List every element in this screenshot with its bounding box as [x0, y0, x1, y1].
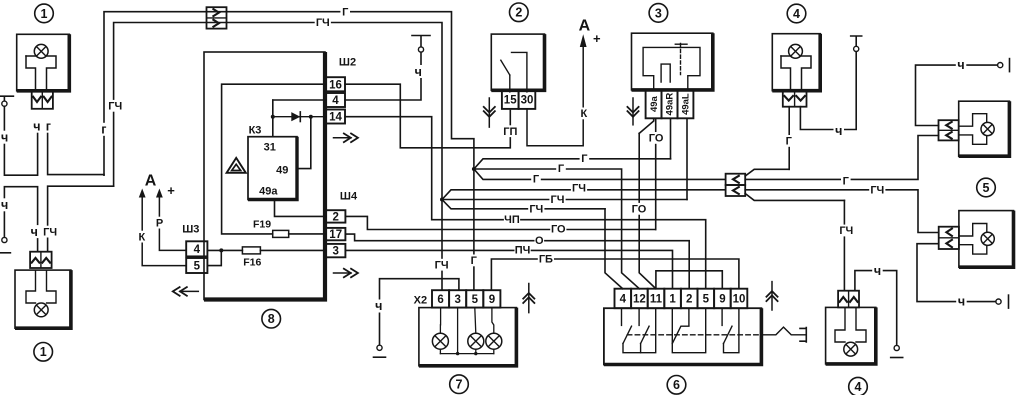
lamp 4 front bulb	[781, 44, 811, 90]
svg-text:30: 30	[521, 95, 534, 107]
body contact top right	[851, 36, 862, 52]
svg-text:Г: Г	[558, 163, 565, 175]
junction dot diode-left	[271, 115, 275, 119]
circled 2	[510, 3, 529, 22]
feed arrow A + (battery)	[580, 34, 587, 47]
hazard switch pin 49aR	[662, 90, 678, 118]
label ГБ	[538, 253, 554, 266]
K3 pin label 49a	[259, 186, 278, 198]
wire ч lamp4-front to body contact	[800, 52, 856, 130]
fuse F16	[242, 247, 260, 254]
svg-text:Г: Г	[581, 153, 588, 165]
svg-text:ч: ч	[1, 130, 8, 144]
label F16	[243, 257, 261, 269]
svg-text:6: 6	[437, 294, 443, 306]
connector X (top-left, in Г/ГЧ runs)	[207, 7, 227, 28]
connector Ш2 pin 4	[326, 93, 345, 107]
cluster connector X2 pin 6	[432, 290, 449, 307]
wire F16 to Ш4-3	[260, 249, 326, 251]
relay K3 (turn signal / hazard flasher)	[248, 137, 297, 200]
svg-text:6: 6	[673, 378, 680, 392]
wire ЧП: Ш2-14 to column switch pin 5	[345, 117, 706, 289]
wire Ш2-4 to relay K3 pin 31	[273, 100, 326, 137]
svg-text:5: 5	[703, 294, 710, 306]
circled 1 (bottom)	[34, 343, 53, 362]
svg-text:ГЧ: ГЧ	[435, 259, 449, 271]
wire ГЧ bus to 49aL	[442, 199, 687, 201]
wire ГЧ to rear side repeater (item 5 bottom)	[745, 190, 939, 233]
svg-text:ч: ч	[1, 198, 8, 212]
svg-text:Ш4: Ш4	[340, 191, 358, 203]
connector of lamp 1 rear	[30, 252, 51, 268]
labels ч ГЧ above lamp 1 rear	[29, 225, 58, 239]
label Г right of connector X	[340, 6, 350, 19]
down continuation arrow near item 3	[627, 98, 639, 125]
connector XS (right, Г line)	[726, 174, 746, 185]
svg-text:11: 11	[650, 294, 663, 306]
wire Ш2-16 to fuse F19	[222, 84, 326, 234]
svg-text:15: 15	[504, 95, 517, 107]
connector of side repeater rear	[939, 227, 959, 249]
svg-text:А: А	[145, 172, 157, 189]
label ГО (lower)	[631, 203, 647, 216]
svg-text:ГЧ: ГЧ	[870, 185, 884, 197]
label X2	[412, 294, 428, 307]
svg-text:Г: Г	[786, 136, 793, 148]
wire ч lamp4-rear to ground	[855, 271, 897, 345]
column switch pin 2	[681, 289, 698, 309]
svg-text:49а: 49а	[649, 95, 660, 112]
diode VD	[291, 112, 300, 122]
lamp 1 front bulb	[26, 44, 56, 90]
circled 5	[977, 178, 996, 197]
svg-text:ГЧ: ГЧ	[572, 183, 586, 195]
jumper Ш3-5 to Ш3-4 node	[207, 250, 221, 265]
wire ГЧ from junction B down to cluster X2-6	[441, 200, 443, 291]
svg-text:9: 9	[719, 294, 725, 306]
connector Ш3 pin 5	[186, 258, 207, 273]
wire F19 to Ш4-17	[289, 233, 326, 235]
feed arrow K (to battery) left	[139, 189, 186, 266]
wire Г bus to connector XS right	[474, 169, 726, 179]
svg-text:ч: ч	[415, 65, 422, 79]
svg-text:г: г	[46, 119, 51, 133]
wire ГЧ to rear-right lamp 4	[745, 194, 844, 291]
wire О: Ш4-17 to column switch pin 2	[345, 234, 689, 289]
wire Г to side repeaters (item 5)	[745, 136, 938, 180]
cluster connector X2 pin 9	[483, 290, 500, 307]
svg-text:4: 4	[793, 7, 800, 21]
hazard switch pin 49aL	[678, 90, 694, 118]
continuation arrow right (at Ш2-14)	[334, 133, 358, 143]
label г on left Г riser	[99, 123, 110, 137]
svg-text:Ш2: Ш2	[339, 57, 356, 69]
svg-text:ГЧ: ГЧ	[529, 204, 543, 216]
label F19	[253, 219, 271, 231]
wire Ш2-14 to diode	[273, 100, 326, 117]
wire Г from junction A down to cluster X2-5	[473, 169, 475, 290]
wire 49aL to ГЧ bus	[686, 118, 688, 199]
wire ч from upper contact to lamp1-front ч pin	[4, 106, 37, 175]
column switch pin 4	[615, 289, 632, 309]
label P	[155, 217, 165, 230]
label О	[535, 234, 545, 247]
wire ПЧ: Ш4-3 to column switch pin 1	[345, 250, 672, 288]
svg-text:ч: ч	[835, 124, 842, 138]
svg-text:14: 14	[329, 112, 342, 124]
column switch housing (item 6)	[604, 308, 762, 364]
svg-text:ч: ч	[874, 264, 881, 278]
label K	[137, 231, 147, 244]
svg-text:Г: Г	[533, 174, 540, 186]
ignition switch housing (item 2)	[491, 34, 544, 90]
up continuation arrow right of item 7	[523, 284, 535, 313]
wire г from lamp1-front to Г riser	[48, 124, 104, 175]
ignition switch contacts	[501, 52, 527, 92]
svg-text:4: 4	[332, 95, 339, 107]
connector Ш4 pin 17	[326, 228, 345, 241]
wire ч from lower contact to lamp1-rear ч pin	[4, 187, 37, 252]
circled 8	[262, 309, 281, 328]
labels ч г under lamp 1 front	[32, 119, 54, 133]
column switch pin 10	[731, 289, 748, 309]
svg-text:ГО: ГО	[649, 133, 664, 145]
ignition switch pin 15	[502, 90, 519, 109]
ground point below (cluster)	[374, 345, 386, 357]
connector Ш2 pin 16	[326, 77, 345, 91]
junction B of ГЧ wires	[440, 198, 444, 202]
ground point bottom right	[891, 345, 903, 357]
lamp 1 rear-left turn signal housing	[15, 270, 71, 328]
circled 7	[450, 375, 469, 394]
circled 4 (bottom)	[849, 377, 868, 395]
wire Г to front-right lamp 4	[745, 107, 789, 176]
svg-text:2: 2	[332, 211, 338, 223]
lamp 4 rear-right turn signal housing	[826, 307, 876, 364]
junction A of Г wires	[472, 167, 476, 171]
wire ГЧ from lamp1-rear to ГЧ riser	[48, 186, 114, 252]
continuation arrow left (below Ш3)	[173, 287, 199, 297]
svg-text:ГЧ: ГЧ	[839, 225, 853, 237]
svg-text:+: +	[593, 31, 601, 46]
label ГЧ on left ГЧ riser	[107, 100, 123, 113]
wire pin30 to battery feed K	[527, 46, 583, 146]
hazard warning triangle symbol	[227, 158, 246, 173]
svg-text:ГП: ГП	[503, 126, 517, 138]
side repeater lamp housing (rear)	[959, 211, 1014, 268]
circled 3	[649, 4, 668, 23]
svg-text:2: 2	[686, 294, 692, 306]
svg-text:49аL: 49аL	[681, 93, 692, 115]
svg-text:ч: ч	[31, 225, 38, 239]
svg-text:Р: Р	[156, 217, 163, 229]
wire ГП: Ш2-16 to ignition switch pin 15	[345, 84, 510, 148]
svg-text:17: 17	[329, 229, 342, 241]
wire ГБ: instrument cluster X2-9 to column switch pin 10	[491, 259, 739, 290]
body contact right top (side)	[998, 59, 1010, 72]
lamp 1 front-left turn signal housing	[17, 34, 70, 91]
ignition switch pin 30	[519, 90, 536, 109]
continuation arrow right (at Ш4-3)	[334, 268, 358, 278]
label ГП	[502, 125, 518, 138]
wire ГО: 49a straight down to ГО bus	[655, 118, 657, 229]
svg-text:ЧП: ЧП	[504, 214, 520, 226]
column switch pin 9	[714, 289, 731, 309]
circled 6	[667, 376, 686, 395]
circled 1 (top)	[35, 4, 54, 23]
svg-text:ГБ: ГБ	[539, 253, 553, 265]
svg-text:12: 12	[633, 294, 646, 306]
fuse F19	[273, 230, 289, 237]
side repeater lamp housing (front)	[959, 101, 1010, 156]
connector Ш2 pin 14	[326, 110, 345, 124]
svg-text:ГО: ГО	[551, 224, 566, 236]
label ГЧ right of connector X	[315, 17, 331, 30]
cluster lamp ground bus	[440, 308, 493, 356]
label A	[579, 17, 591, 34]
lamp 4 front-right turn signal housing	[772, 34, 820, 91]
svg-text:Г: Г	[342, 7, 349, 19]
svg-text:49: 49	[276, 165, 288, 177]
body contact point (lower left)	[0, 237, 10, 252]
svg-text:31: 31	[264, 142, 276, 154]
svg-text:ч: ч	[957, 58, 964, 72]
svg-text:9: 9	[489, 294, 495, 306]
connector XS (right, ГЧ line)	[726, 185, 746, 196]
indicator lamp left (turn LH)	[432, 308, 448, 350]
body contact above Ш2	[412, 36, 430, 53]
label ПЧ	[515, 244, 531, 257]
svg-text:2: 2	[515, 6, 522, 20]
svg-text:3: 3	[655, 6, 662, 20]
svg-text:1: 1	[669, 294, 676, 306]
column switch pin 11	[648, 289, 665, 309]
mechanical coupling dashed line	[627, 327, 806, 342]
column switch pin 5	[698, 289, 715, 309]
label +	[167, 183, 175, 198]
svg-text:ГЧ: ГЧ	[43, 226, 57, 238]
lamp 4 rear bulb	[835, 308, 866, 356]
svg-text:4: 4	[855, 380, 862, 394]
svg-text:49аR: 49аR	[665, 93, 676, 116]
circled 4 (top)	[787, 4, 806, 23]
column switch internal contacts middle group (headlight)	[672, 308, 705, 353]
svg-text:К: К	[581, 108, 588, 120]
svg-text:К3: К3	[249, 125, 262, 137]
wire ГЧ bus to connector XS right	[442, 190, 726, 200]
wire Г bus to 49aR	[474, 159, 671, 169]
wire Ш3-4 to fuse F16	[207, 249, 242, 251]
label +	[593, 31, 601, 46]
svg-text:ч: ч	[958, 295, 965, 309]
wire ГЧ top run (lamp1 rear-left to junction B feed)	[114, 23, 442, 200]
label ГО (upper)	[648, 132, 664, 145]
wire K3 pin 49a to Ш4-2	[275, 200, 327, 217]
svg-text:Ш3: Ш3	[182, 224, 199, 236]
svg-text:F19: F19	[253, 219, 271, 231]
svg-text:49а: 49а	[259, 186, 278, 198]
label Ш2	[339, 57, 356, 69]
label ЧП	[504, 213, 520, 226]
side repeater front bulb	[959, 114, 994, 145]
label K	[579, 108, 589, 121]
cluster connector X2 pin 5	[466, 290, 483, 307]
wire ГО: Ш4-2 to hazard switch 49a	[345, 216, 655, 229]
column switch pin 1	[664, 289, 681, 309]
jumper pins 11-9	[656, 271, 722, 289]
label A (battery direction)	[145, 172, 157, 189]
wire ч repeater front to body contact	[916, 65, 997, 125]
mounting block 8	[204, 52, 325, 300]
K3 pin label 49	[276, 165, 288, 177]
hazard switch housing (item 3)	[632, 33, 713, 90]
svg-text:10: 10	[733, 294, 746, 306]
down continuation arrow near item 2	[483, 98, 495, 127]
svg-text:Г: Г	[471, 255, 478, 267]
svg-text:1: 1	[41, 7, 48, 21]
body contact point (upper left)	[0, 96, 13, 106]
connector of lamp 4 rear	[838, 291, 859, 308]
svg-text:Х2: Х2	[414, 294, 427, 306]
svg-text:3: 3	[454, 294, 460, 306]
wire ГО: 49a down to column switch pin 11	[639, 118, 656, 288]
svg-text:5: 5	[472, 294, 479, 306]
svg-text:О: О	[535, 235, 544, 247]
connector of lamp 4 front	[783, 91, 807, 107]
hazard switch internal contacts	[643, 44, 700, 90]
wire ГЧ bus to column switch pin 4	[442, 200, 623, 289]
wire ч: Ш2-4 to body contact	[345, 52, 421, 100]
K3 pin label 31	[264, 142, 276, 154]
column switch internal contacts left group	[622, 308, 656, 353]
svg-text:4: 4	[194, 244, 201, 256]
svg-text:5: 5	[194, 261, 201, 273]
label ч	[413, 65, 424, 79]
label K3	[249, 125, 262, 137]
connector Ш4 pin 3	[326, 244, 345, 258]
svg-text:Г: Г	[843, 176, 850, 188]
wire ч repeater rear to body contact	[917, 244, 995, 302]
indicator lamp middle (turn RH)	[468, 308, 484, 350]
svg-text:3: 3	[332, 246, 338, 258]
lamp 1 rear bulb	[26, 271, 56, 317]
svg-text:5: 5	[983, 181, 990, 195]
svg-text:8: 8	[268, 312, 275, 326]
svg-text:А: А	[579, 17, 591, 34]
connector of side repeater front	[939, 120, 959, 140]
svg-text:ГЧ: ГЧ	[551, 194, 565, 206]
svg-text:г: г	[101, 123, 106, 137]
column switch internal contacts right group	[722, 308, 739, 353]
instrument cluster housing (item 7)	[419, 308, 517, 366]
wire Г bus to column switch pin 12	[474, 169, 639, 289]
label ГО	[550, 223, 566, 236]
wire ч cluster X2-3 to ground	[380, 279, 459, 345]
junction dot Ш3-4/Ш3-5	[219, 248, 223, 252]
svg-text:ПЧ: ПЧ	[515, 244, 531, 256]
svg-text:+: +	[167, 183, 175, 198]
svg-text:F16: F16	[243, 257, 261, 269]
label Ш4	[340, 191, 358, 203]
svg-text:4: 4	[620, 294, 627, 306]
junction dot diode-K3.49	[309, 115, 313, 119]
svg-text:ГО: ГО	[632, 204, 647, 216]
wire Г top run (lamp1 front-left to junction A feed)	[104, 12, 474, 176]
svg-text:16: 16	[329, 79, 342, 91]
cluster connector X2 pin 3	[449, 290, 466, 307]
connector Ш4 pin 2	[326, 210, 345, 223]
hazard switch pin 49a	[646, 90, 662, 118]
connector of lamp 1 front	[32, 91, 53, 109]
svg-text:ч: ч	[375, 299, 382, 313]
wire diode junction to K3 pin 49	[297, 117, 311, 169]
svg-text:7: 7	[456, 378, 463, 392]
feed arrow P (ignition relay)	[156, 189, 186, 251]
label Ш3	[182, 224, 199, 236]
body contact right bottom (side)	[996, 295, 1009, 308]
wire 49aR to Г bus	[670, 118, 672, 159]
side repeater rear bulb	[959, 224, 994, 255]
svg-text:К: К	[138, 231, 145, 243]
indicator lamp right (high beam)	[486, 308, 502, 350]
connector Ш3 pin 4	[186, 241, 207, 256]
svg-text:ГЧ: ГЧ	[316, 17, 330, 29]
svg-text:1: 1	[40, 345, 47, 359]
up continuation arrow right of item 6	[766, 282, 778, 310]
svg-text:ч: ч	[33, 119, 40, 133]
svg-text:ГЧ: ГЧ	[108, 101, 122, 113]
column switch pin 12	[631, 289, 648, 309]
